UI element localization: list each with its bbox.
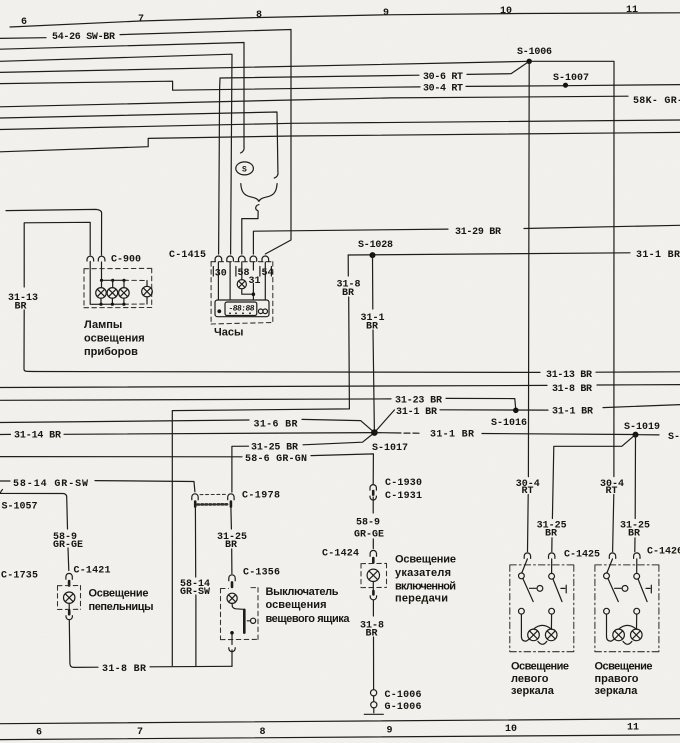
clock display window bbox=[225, 302, 257, 316]
svg-text:BR: BR bbox=[545, 529, 557, 540]
switch return wire to bottom line bbox=[231, 650, 233, 666]
svg-text:7: 7 bbox=[138, 14, 144, 25]
instrument lamp 2 bbox=[107, 288, 118, 299]
connector C-1978 pin arcs bbox=[192, 494, 198, 500]
lamp bus bottom solid joining left pin vertical bbox=[90, 262, 124, 305]
C-1424 blade bbox=[372, 558, 375, 563]
lamps box dashed border bbox=[84, 267, 152, 269]
svg-text:30-4 RT: 30-4 RT bbox=[423, 83, 463, 94]
ashtray lamp bbox=[63, 592, 74, 603]
wire 30-4 RT right mirror drop lower part bbox=[613, 495, 614, 552]
svg-text:S-1028: S-1028 bbox=[358, 240, 393, 251]
svg-text:31-1 BR: 31-1 BR bbox=[396, 407, 437, 418]
clock pin 58 stub to illumination lamp bbox=[241, 262, 243, 280]
svg-text:BR: BR bbox=[15, 302, 27, 313]
svg-text:58K- GR-: 58K- GR- bbox=[633, 96, 680, 107]
wire 31-8 BR corner drop from S-1028 bbox=[347, 255, 349, 276]
svg-text:C-1425: C-1425 bbox=[564, 549, 600, 560]
svg-text:31-1 BR: 31-1 BR bbox=[636, 250, 680, 261]
svg-text:GR-GE: GR-GE bbox=[354, 530, 384, 541]
wire 31-14 BR from left edge to S-1017 bbox=[0, 433, 11, 435]
svg-text:C-900: C-900 bbox=[111, 255, 141, 266]
svg-text:BR: BR bbox=[342, 288, 354, 299]
terminal divider ticks bbox=[213, 267, 271, 277]
ring terminal G-1006 bbox=[371, 702, 377, 708]
wire end hook W2 bbox=[241, 147, 245, 154]
lamp bottom stub bbox=[68, 603, 70, 610]
switch lever from lamp bbox=[232, 603, 243, 609]
wire 31-1 BR from S-1028 to right edge bbox=[348, 253, 630, 255]
clock display small dots bbox=[229, 312, 231, 314]
svg-text:54: 54 bbox=[262, 268, 274, 279]
ring terminal C-1006 bbox=[371, 690, 377, 696]
wire 58K- GR- to right edge bbox=[0, 96, 628, 107]
svg-text:Освещение: Освещение bbox=[89, 588, 149, 600]
svg-text:S-1016: S-1016 bbox=[491, 418, 527, 429]
svg-text:зеркала: зеркала bbox=[595, 685, 639, 697]
lamp bottom stub bbox=[372, 582, 374, 592]
clock set button dot bbox=[217, 309, 221, 313]
wire 31-1 BR vertical from S-1028 dot to S-1017 bbox=[372, 255, 374, 309]
clock pin stubs into body bbox=[218, 262, 265, 300]
svg-text:BR: BR bbox=[366, 322, 378, 333]
lamp return to pin 31 junction bbox=[242, 289, 254, 294]
svg-text:7: 7 bbox=[137, 727, 143, 738]
splice symbol S (ellipse) bbox=[236, 162, 254, 175]
left mirror switch 1 stub and contacts bbox=[522, 559, 528, 573]
wire 31-25 BR down to glovebox lamp bbox=[230, 507, 233, 529]
wire 30-4 RT with step at x=172 through S-1007 to right edge bbox=[0, 81, 420, 90]
wire continuing right edge from S-1019 bbox=[639, 434, 660, 436]
bottom ruler line 1 bbox=[0, 719, 680, 724]
svg-text:указателя: указателя bbox=[395, 567, 451, 579]
svg-text:GR-GE: GR-GE bbox=[53, 540, 83, 551]
inline connector below ashtray lamp bbox=[68, 611, 71, 614]
C-1978 lower blades bbox=[195, 502, 231, 507]
clock body bbox=[215, 300, 269, 317]
svg-text:10: 10 bbox=[505, 724, 517, 735]
svg-text:58-9: 58-9 bbox=[356, 518, 380, 529]
connector C-900 pin arcs bbox=[87, 256, 94, 261]
right mirror switch 1 stub and contacts bbox=[607, 559, 613, 573]
top ruler line bbox=[10, 13, 680, 27]
ashtray return wire down to 31-8 BR bottom line bbox=[69, 620, 98, 667]
svg-text:8: 8 bbox=[256, 10, 262, 21]
svg-text:C-1356: C-1356 bbox=[243, 568, 280, 579]
brace collecting two wires into clock pin 58 bbox=[241, 184, 277, 202]
lamp bus top solid with junction dots bbox=[102, 262, 125, 280]
instrument lamp 4 bbox=[142, 286, 153, 297]
svg-text:Освещение: Освещение bbox=[511, 661, 569, 673]
splice dot S-1006 bbox=[527, 59, 532, 64]
C-1421 blade bbox=[68, 581, 71, 586]
left mirror pivot circle and ticks bbox=[530, 587, 536, 589]
bottom ruler line 2 bbox=[0, 735, 680, 740]
wire end hook W7 bbox=[274, 172, 278, 179]
left mirror dashed box bbox=[510, 565, 574, 652]
connector C-1424 arc bbox=[370, 550, 376, 556]
svg-text:приборов: приборов bbox=[84, 346, 138, 358]
svg-text:Лампы: Лампы bbox=[84, 319, 122, 331]
31-13 BR vertical lower part to corner joining 31-13 line bbox=[24, 310, 34, 372]
connector C-1421 arc bbox=[66, 573, 72, 579]
connector C-1356 arc bbox=[229, 575, 235, 581]
svg-text:31-1 BR: 31-1 BR bbox=[430, 430, 474, 441]
right mirror lamp 1 bbox=[613, 629, 625, 641]
instrument lamp 1 bbox=[96, 288, 107, 299]
svg-text:-88:88: -88:88 bbox=[228, 304, 255, 313]
inline connector below gear lamp bbox=[372, 591, 375, 594]
bottom 31-8 BR line right part to glovebox bbox=[150, 665, 232, 668]
lamp return stubs bbox=[101, 297, 147, 304]
svg-text:31: 31 bbox=[249, 276, 261, 287]
svg-text:31-29 BR: 31-29 BR bbox=[455, 227, 501, 238]
C-1356 blade bbox=[231, 582, 234, 587]
svg-text:C-1424: C-1424 bbox=[322, 549, 359, 560]
wire 31-23 BR ending at S-1016 bbox=[0, 399, 391, 400]
svg-text:54-26 SW-BR: 54-26 SW-BR bbox=[52, 32, 115, 43]
svg-text:6: 6 bbox=[36, 728, 42, 739]
svg-text:11: 11 bbox=[626, 5, 638, 16]
instrument lamp 3 bbox=[119, 288, 130, 299]
svg-text:9: 9 bbox=[383, 8, 389, 19]
wire 31-29 BR riser from clock pin 31 bbox=[253, 229, 448, 254]
svg-text:GR-SW: GR-SW bbox=[180, 587, 210, 598]
svg-text:58-6 GR-GN: 58-6 GR-GN bbox=[245, 454, 307, 465]
left mirror lamp 2 bbox=[545, 629, 557, 641]
connector C-1425 arcs (left mirror) bbox=[524, 553, 530, 559]
C-1978 dotted mate line bbox=[198, 503, 229, 506]
wire from brace tail jog to clock pin 58 bbox=[242, 212, 258, 254]
clock illumination lamp bbox=[237, 280, 246, 289]
wire C-900 pin2 feed from left edge bbox=[6, 209, 102, 255]
wire W3 to corner then down to clock pin 2 bbox=[0, 54, 232, 254]
svg-text:31-1 BR: 31-1 BR bbox=[552, 406, 593, 417]
left mirror lamp wiring bbox=[521, 614, 529, 641]
svg-text:передачи: передачи bbox=[395, 593, 448, 605]
ashtray lamp dashed box bbox=[58, 586, 81, 610]
wire 31-1 BR through S-1016 to right edge bbox=[374, 410, 394, 433]
left mirror lamp 1 bbox=[528, 629, 540, 641]
svg-text:Освещение: Освещение bbox=[595, 661, 653, 673]
svg-text:C-1735: C-1735 bbox=[1, 571, 38, 582]
wire 31-25 BR from S-1019 down to right mirror bbox=[634, 435, 636, 519]
svg-text:C-1931: C-1931 bbox=[385, 491, 422, 502]
svg-text:Освещение: Освещение bbox=[395, 554, 456, 566]
right mirror pivot circle and ticks bbox=[615, 587, 621, 589]
wire 31-25 BR branch from S-1019 to left mirror bbox=[552, 435, 635, 519]
svg-text:S-1057: S-1057 bbox=[2, 501, 38, 512]
wire 30 feed through S-1006 to corner x=614 down to right mirror bbox=[0, 61, 614, 476]
wire S-1057 to ashtray lamp drop bbox=[0, 490, 68, 530]
svg-text:31-13 BR: 31-13 BR bbox=[546, 370, 592, 381]
svg-text:11: 11 bbox=[627, 723, 639, 734]
right mirror lamp 2 bbox=[631, 629, 643, 641]
wire 58-6 GR-GN from left edge to corner down to C-1930 bbox=[0, 456, 242, 458]
right mirror switch 1 lever bbox=[608, 578, 618, 601]
wire 31-25 BR from C-1978 up and right to S-1017 bbox=[232, 446, 249, 492]
junction dot on pin 31 wire bbox=[252, 292, 256, 296]
svg-text:S: S bbox=[242, 166, 247, 175]
svg-text:S-1007: S-1007 bbox=[553, 73, 589, 84]
switch contact circle bbox=[251, 618, 256, 623]
wire between terminals bbox=[373, 696, 375, 702]
wire 58-9 GR-GE to gear indicator lamp bbox=[372, 497, 374, 513]
left mirror switch 2 stub and contacts bbox=[551, 559, 553, 573]
svg-text:31-8 BR: 31-8 BR bbox=[552, 384, 592, 395]
wire 30-6 RT from clock pin 30 up and right to S-1006 bbox=[219, 75, 419, 254]
wire 30-4 RT left mirror drop (S-1006 vertical) bbox=[527, 61, 530, 476]
clock knob circles bbox=[258, 309, 263, 314]
C-1978 dashed bridge bbox=[200, 493, 226, 495]
svg-text:S-1017: S-1017 bbox=[372, 443, 408, 454]
svg-text:S-1019: S-1019 bbox=[624, 422, 660, 433]
svg-text:включенной: включенной bbox=[395, 581, 456, 593]
wire 31-8 BR down to C-1006 bbox=[372, 600, 374, 616]
clock connector dashed line through pins bbox=[211, 261, 273, 263]
left mirror switch 2 lever bbox=[553, 579, 562, 602]
svg-text:RT: RT bbox=[606, 486, 618, 497]
lamp feed stubs bbox=[112, 280, 114, 287]
svg-text:C-1415: C-1415 bbox=[169, 250, 206, 261]
wire 54-26 SW-BR left segment bbox=[0, 37, 46, 40]
svg-text:RT: RT bbox=[522, 486, 534, 497]
wire 31-13 BR horizontal to right edge bbox=[34, 371, 540, 374]
splice dot S-1007 bbox=[563, 83, 568, 88]
svg-text:G-1006: G-1006 bbox=[385, 702, 422, 713]
wire 58-14 GR-SW continuation down to bottom 31-8 line bbox=[194, 507, 196, 577]
right mirror switch 2 stub and contacts bbox=[636, 559, 638, 573]
svg-text:8: 8 bbox=[260, 727, 266, 738]
svg-text:BR: BR bbox=[225, 540, 237, 551]
svg-text:Часы: Часы bbox=[214, 327, 243, 339]
wire W7 to corner x=277 down, hook end above brace bbox=[0, 112, 278, 172]
svg-text:C-1421: C-1421 bbox=[74, 565, 111, 576]
wire C-900 pin1 feed / 31-13 BR drop bbox=[24, 222, 90, 287]
svg-text:31-8 BR: 31-8 BR bbox=[102, 664, 146, 675]
connector C-1930/C-1931 inline pair bbox=[370, 485, 376, 491]
glovebox switch dashed box bbox=[221, 588, 259, 640]
right mirror lamp wiring bbox=[607, 614, 615, 641]
svg-text:31-25 BR: 31-25 BR bbox=[251, 443, 298, 454]
splice dot S-1016 bbox=[513, 408, 519, 414]
svg-text:Выключатель: Выключатель bbox=[266, 586, 339, 598]
clock dashed box sides bbox=[210, 262, 212, 324]
svg-text:30-6 RT: 30-6 RT bbox=[423, 72, 463, 83]
right mirror switch 2 lever bbox=[638, 579, 647, 602]
wire 31-8 BR horizontal full width bbox=[0, 385, 547, 387]
svg-text:пепельницы: пепельницы bbox=[89, 601, 154, 613]
contact dash bbox=[247, 620, 250, 622]
gear indicator lamp dashed box bbox=[361, 563, 387, 587]
splice dot S-1028 bbox=[370, 252, 376, 258]
clock connector pin arcs bbox=[215, 256, 222, 262]
svg-text:C-1006: C-1006 bbox=[385, 690, 422, 701]
svg-text:10: 10 bbox=[500, 6, 512, 17]
wire 54-26 SW-BR to corner then down to clock pin 54 bbox=[120, 30, 291, 255]
svg-text:S-1006: S-1006 bbox=[517, 47, 552, 58]
svg-text:освещения: освещения bbox=[266, 599, 327, 611]
svg-text:58-14 GR-SW: 58-14 GR-SW bbox=[13, 479, 88, 490]
wire 58-14 GR-SW from left edge to C-1978 bbox=[0, 480, 10, 482]
svg-text:C-1978: C-1978 bbox=[242, 491, 280, 502]
wire 31-29 BR right portion to edge bbox=[524, 225, 680, 228]
wire W9 with step up at x=148 full width bbox=[0, 132, 680, 151]
svg-text:C-1426: C-1426 bbox=[647, 546, 680, 557]
gear indicator lamp bbox=[367, 569, 379, 581]
lower contact dot and stub bbox=[230, 631, 234, 635]
glovebox lamp bbox=[227, 593, 237, 603]
svg-text:освещения: освещения bbox=[84, 333, 145, 345]
wire W2 to corner then down, hook end above splice S bbox=[0, 43, 244, 147]
svg-text:BR: BR bbox=[366, 629, 378, 640]
svg-text:31-6 BR: 31-6 BR bbox=[254, 420, 298, 431]
svg-text:S-: S- bbox=[668, 432, 680, 443]
svg-text:31-14 BR: 31-14 BR bbox=[14, 431, 61, 442]
svg-text:6: 6 bbox=[21, 17, 27, 28]
svg-text:правого: правого bbox=[595, 673, 639, 685]
ground G-1006 bbox=[373, 708, 375, 713]
svg-text:C-1930: C-1930 bbox=[385, 478, 422, 489]
svg-text:31-23 BR: 31-23 BR bbox=[395, 395, 442, 406]
left mirror switch 1 lever bbox=[523, 578, 533, 601]
svg-text:вещевого ящика: вещевого ящика bbox=[266, 613, 351, 625]
hook under brace tail bbox=[256, 205, 259, 212]
svg-text:30: 30 bbox=[215, 269, 227, 280]
splice dot S-1017 bbox=[371, 429, 378, 436]
splice dot S-1019 bbox=[633, 432, 639, 438]
svg-text:левого: левого bbox=[511, 673, 549, 685]
connector C-1426 arcs (right mirror) bbox=[609, 553, 615, 559]
svg-text:9: 9 bbox=[387, 726, 393, 737]
wire 31-6 BR from left edge to S-1017 bbox=[0, 420, 249, 423]
svg-text:зеркала: зеркала bbox=[511, 685, 555, 697]
wire 31-1 BR from S-1017 to S-1019 bbox=[374, 432, 401, 434]
wire W8 full width bbox=[0, 120, 680, 130]
svg-text:BR: BR bbox=[628, 529, 640, 540]
inline connector below switch bbox=[229, 647, 235, 651]
right mirror dashed box bbox=[595, 565, 659, 652]
